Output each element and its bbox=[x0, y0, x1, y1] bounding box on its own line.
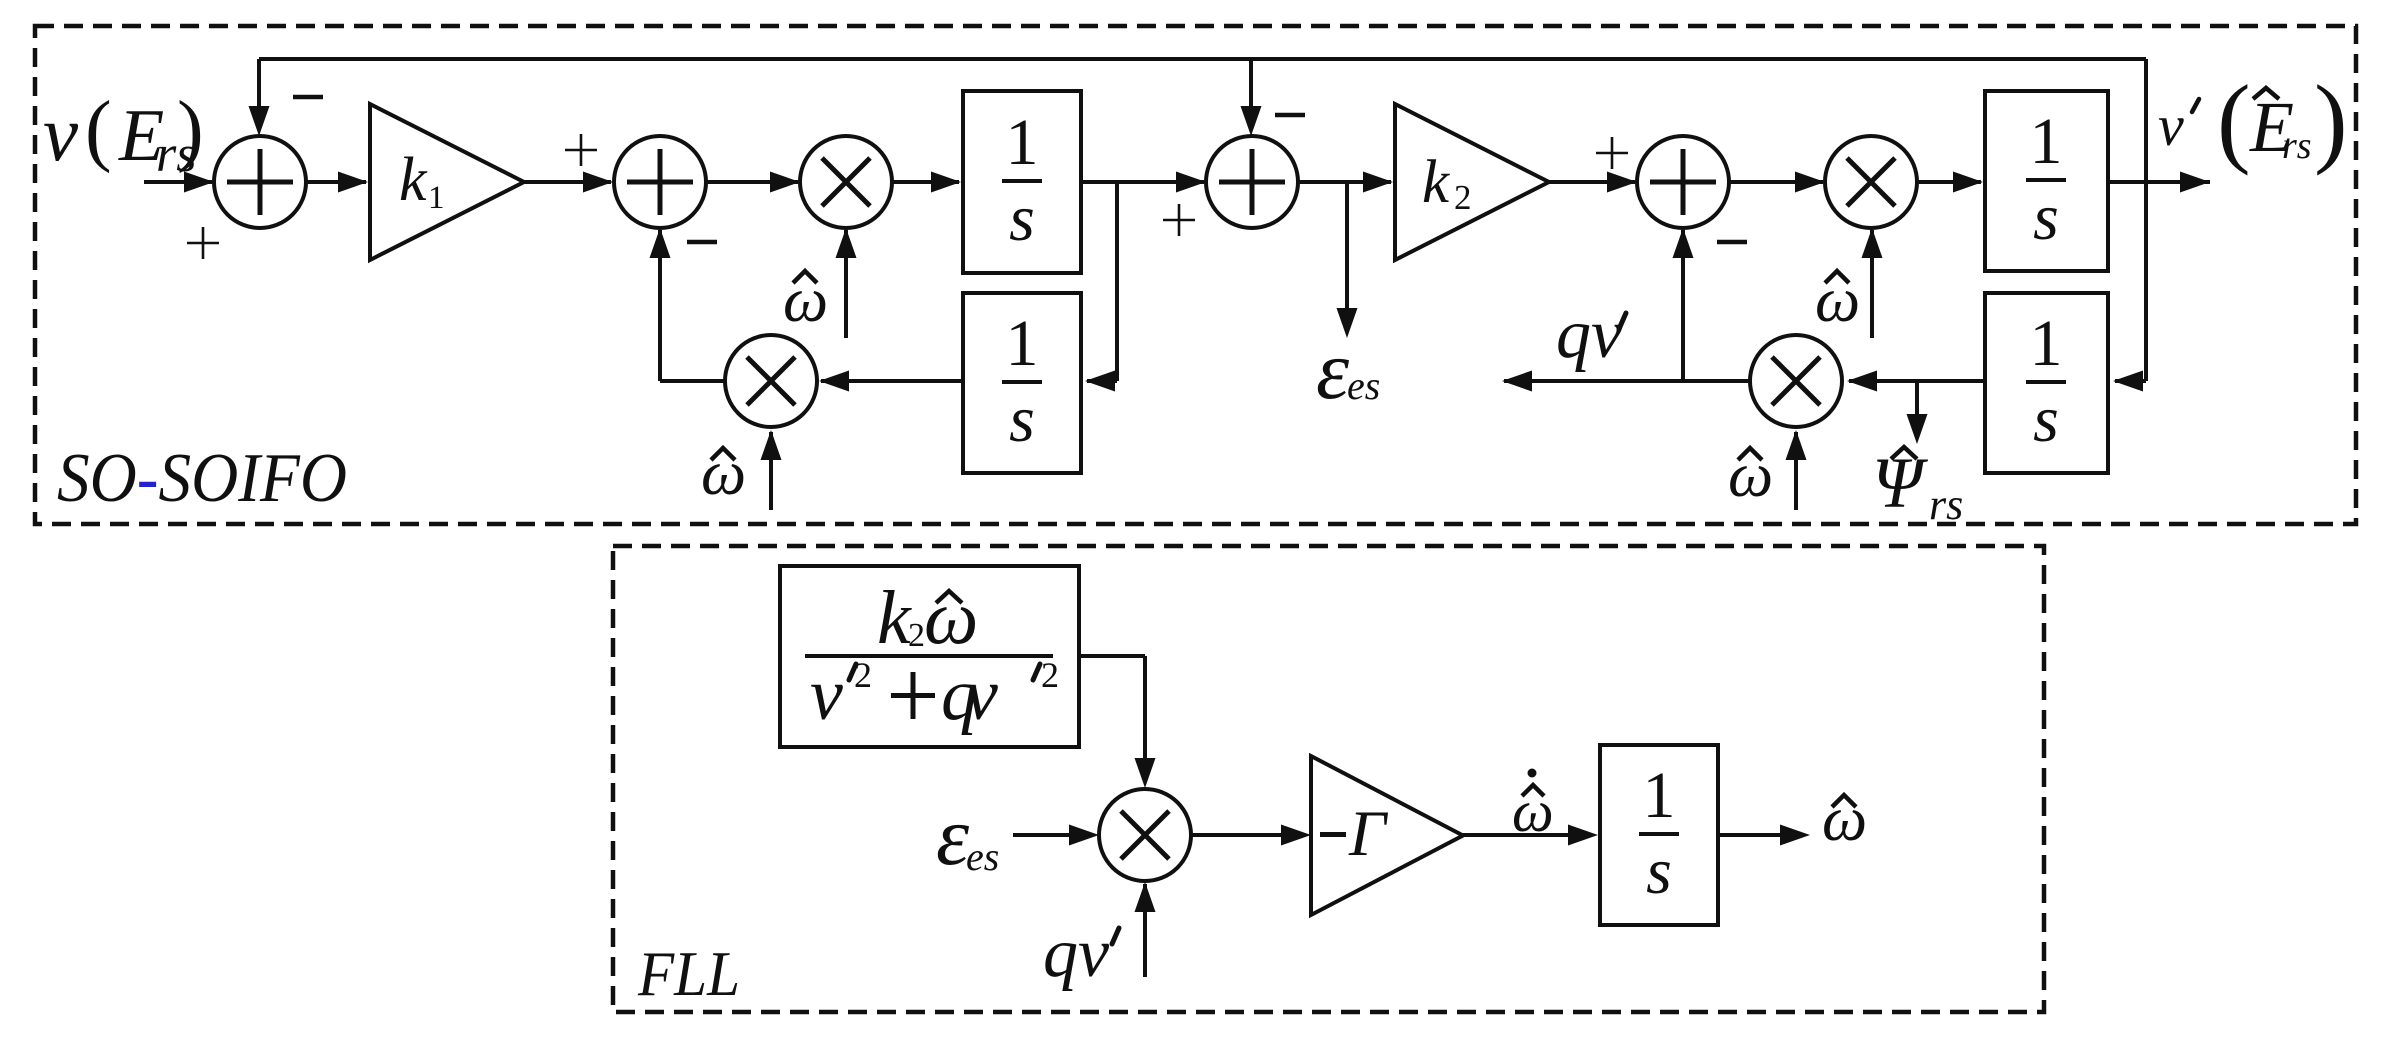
svg-text:2: 2 bbox=[908, 617, 925, 654]
svg-text:2: 2 bbox=[854, 655, 872, 695]
svg-text:s: s bbox=[1646, 835, 1672, 908]
svg-text:): ) bbox=[177, 86, 204, 174]
svg-text:es: es bbox=[1347, 363, 1380, 408]
svg-text:(: ( bbox=[2217, 64, 2251, 176]
svg-text:2: 2 bbox=[1454, 178, 1472, 217]
svg-text:1: 1 bbox=[1006, 106, 1039, 179]
svg-text:es: es bbox=[966, 834, 999, 879]
svg-text:Γ: Γ bbox=[1348, 798, 1389, 870]
svg-text:ε: ε bbox=[1316, 324, 1350, 417]
svg-text:k: k bbox=[877, 576, 912, 660]
svg-text:v: v bbox=[2158, 93, 2184, 158]
svg-text:v: v bbox=[810, 654, 843, 736]
svg-text:s: s bbox=[1009, 182, 1035, 255]
svg-text:rs: rs bbox=[1929, 480, 1963, 529]
svg-text:1: 1 bbox=[2030, 307, 2063, 380]
svg-text:SO-SOIFO: SO-SOIFO bbox=[57, 440, 347, 517]
svg-text:qv: qv bbox=[1556, 296, 1623, 373]
svg-text:1: 1 bbox=[428, 180, 445, 216]
svg-text:FLL: FLL bbox=[637, 938, 740, 1009]
svg-text:1: 1 bbox=[2030, 105, 2063, 178]
svg-text:1: 1 bbox=[1643, 759, 1676, 832]
svg-text:): ) bbox=[2314, 64, 2348, 176]
svg-text:v: v bbox=[965, 654, 998, 736]
svg-text:s: s bbox=[2033, 383, 2059, 456]
svg-text:qv: qv bbox=[1043, 915, 1110, 992]
svg-text:2: 2 bbox=[1041, 655, 1059, 695]
svg-text:1: 1 bbox=[1006, 307, 1039, 380]
svg-text:s: s bbox=[2033, 181, 2059, 254]
svg-text:s: s bbox=[1009, 383, 1035, 456]
svg-text:rs: rs bbox=[2282, 125, 2312, 167]
svg-text:ε: ε bbox=[936, 790, 970, 883]
svg-text:k: k bbox=[399, 146, 428, 214]
svg-text:(: ( bbox=[85, 86, 112, 174]
svg-text:v: v bbox=[43, 91, 79, 178]
svg-text:k: k bbox=[1422, 149, 1450, 216]
svg-text:ω: ω bbox=[924, 574, 978, 660]
svg-text:Ψ: Ψ bbox=[1872, 443, 1929, 523]
